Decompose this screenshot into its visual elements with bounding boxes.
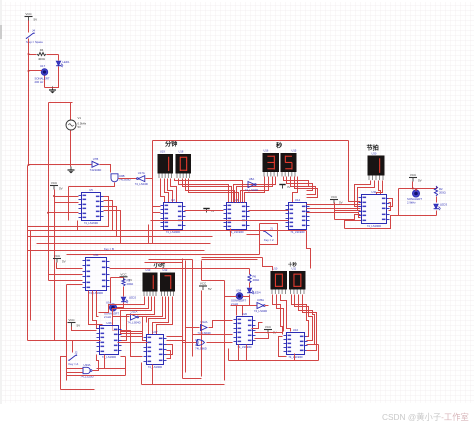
wire vert x224 <box>224 281 226 381</box>
wire right vert 4b <box>201 291 203 377</box>
wire to U31 <box>349 141 361 202</box>
wire <box>186 327 200 329</box>
IC U5 (divider) <box>79 188 104 225</box>
power VCC 5V <box>264 325 277 335</box>
wire <box>293 177 298 203</box>
svg-text:U20: U20 <box>242 312 248 316</box>
wire vert x54 full <box>54 190 56 341</box>
wire <box>243 296 250 298</box>
IC U26 (hour units) <box>97 321 122 359</box>
wire <box>104 355 106 369</box>
wire <box>273 295 283 335</box>
wire right vert 1 <box>182 259 184 379</box>
wire <box>183 179 232 203</box>
svg-text:74_LS04D: 74_LS04D <box>127 321 140 325</box>
IC U14 (second units counter) <box>286 198 310 234</box>
wire <box>183 342 197 344</box>
wire <box>249 283 251 288</box>
wire <box>121 336 143 338</box>
wire <box>49 102 73 104</box>
wire disp top 1 <box>202 257 263 259</box>
wire <box>104 207 117 237</box>
gate U7B (74LS04D) <box>90 157 102 172</box>
wire <box>291 177 316 195</box>
svg-text:VCC: VCC <box>331 195 338 199</box>
svg-text:200Ω: 200Ω <box>439 191 446 195</box>
buzzer/sonalert <box>231 293 246 306</box>
wire <box>189 179 239 203</box>
svg-text:U18: U18 <box>179 150 184 154</box>
clock source V1 <box>66 116 87 130</box>
wire <box>171 179 177 203</box>
svg-text:U30: U30 <box>372 152 377 156</box>
wire <box>44 76 46 88</box>
wire <box>72 327 97 331</box>
junction <box>412 188 414 190</box>
switch J4 <box>26 29 44 45</box>
wire <box>355 181 371 207</box>
wire <box>149 259 193 261</box>
gate U9B (74LS08D) <box>111 174 131 182</box>
svg-text:U10: U10 <box>106 301 112 305</box>
wire <box>146 178 153 180</box>
wire <box>148 225 150 244</box>
wire <box>121 356 126 358</box>
svg-text:VCC: VCC <box>54 254 61 258</box>
wire <box>377 181 383 195</box>
wire far-left vertical <box>27 166 29 341</box>
wire mid rail 1 <box>151 220 278 222</box>
ground <box>68 167 75 174</box>
svg-text:Key = 2: Key = 2 <box>264 238 274 242</box>
wire <box>433 187 437 189</box>
wire <box>57 263 83 269</box>
wire bottom rail 1b <box>97 368 126 370</box>
wire <box>118 297 152 335</box>
wire <box>255 332 283 334</box>
wire <box>55 202 79 204</box>
svg-text:U8A: U8A <box>249 177 255 181</box>
svg-text:CSDN @黄小子-工作室: CSDN @黄小子-工作室 <box>382 412 469 422</box>
wire <box>67 372 83 374</box>
wire <box>141 363 143 385</box>
wire <box>97 291 99 317</box>
svg-text:74_LS190D: 74_LS190D <box>237 345 251 349</box>
svg-text:400Ω: 400Ω <box>253 278 260 282</box>
wire <box>335 210 361 212</box>
svg-text:200 Hz: 200 Hz <box>35 80 44 84</box>
svg-text:VCC: VCC <box>25 12 32 16</box>
wire <box>281 295 291 332</box>
wire mid rail 2 <box>28 230 307 232</box>
wire <box>29 54 37 56</box>
svg-text:U7B: U7B <box>93 157 99 161</box>
svg-text:Key = A: Key = A <box>69 362 79 366</box>
svg-text:U17A: U17A <box>138 171 145 175</box>
wire <box>104 201 113 231</box>
svg-text:U16: U16 <box>264 149 269 153</box>
svg-text:74_LS190D: 74_LS190D <box>148 365 162 369</box>
wire <box>70 103 72 121</box>
wire mid rail 5 <box>28 250 205 252</box>
wire <box>265 305 269 307</box>
wire <box>49 280 83 282</box>
resistor R4 <box>37 48 46 61</box>
wire <box>111 277 124 279</box>
wire bottom mid rail <box>229 360 319 362</box>
wire <box>225 296 237 298</box>
wire vertical x48 <box>48 103 50 281</box>
wire <box>247 234 260 236</box>
svg-text:LED2: LED2 <box>129 296 136 300</box>
wire <box>412 182 414 189</box>
power VCC 5V <box>330 195 343 205</box>
IC U6 (minute tens counter) <box>224 198 250 234</box>
svg-text:U2: U2 <box>171 198 175 202</box>
svg-text:V1: V1 <box>78 116 82 120</box>
svg-text:74_LS163D: 74_LS163D <box>84 221 98 225</box>
wire <box>249 269 251 275</box>
svg-text:U11: U11 <box>292 267 297 271</box>
svg-text:U10: U10 <box>273 267 278 271</box>
svg-text:5V: 5V <box>339 201 343 205</box>
wire bottom rail 1 <box>67 375 126 377</box>
wire <box>165 179 169 203</box>
display U19 <box>158 154 174 178</box>
wire <box>228 349 230 361</box>
power VCC 5V <box>199 282 212 292</box>
wire disp top 2 <box>202 259 258 261</box>
wire <box>28 21 30 33</box>
wire <box>145 262 183 264</box>
wire <box>243 184 247 186</box>
display U16 <box>263 153 280 177</box>
wire right of U14 <box>334 203 336 220</box>
IC U2 (minute units counter) <box>161 198 186 234</box>
wire <box>119 178 137 180</box>
wire carry <box>185 220 224 222</box>
wire box bottom <box>399 215 437 217</box>
wire <box>307 344 319 346</box>
svg-text:J4: J4 <box>32 29 35 33</box>
IC U21 (hour tens) <box>83 253 110 295</box>
wire <box>245 177 265 203</box>
svg-text:J2: J2 <box>75 351 78 355</box>
wire <box>436 211 438 216</box>
wire <box>202 280 225 282</box>
svg-text:5V: 5V <box>62 260 66 264</box>
wire top rail <box>153 140 349 142</box>
wire <box>125 357 127 376</box>
wire <box>157 297 173 335</box>
wire <box>358 181 375 211</box>
wire <box>67 368 83 370</box>
power VCC 5V <box>68 318 81 328</box>
wire seconds to beat 1 <box>307 204 361 206</box>
wire <box>279 337 287 357</box>
wire <box>52 88 54 89</box>
wire mid rail 3 <box>28 236 213 238</box>
wire <box>307 231 311 269</box>
wire <box>299 295 315 345</box>
wire <box>49 212 79 214</box>
display U10d <box>271 271 288 294</box>
ground <box>203 209 214 214</box>
svg-text:2 kHz: 2 kHz <box>104 315 112 319</box>
wire <box>121 331 143 357</box>
wire LED top <box>58 55 60 61</box>
LED LED4 <box>247 288 254 294</box>
svg-text:Key = B: Key = B <box>104 247 114 251</box>
wire <box>193 334 233 336</box>
gate U8A (74_LS04D) <box>245 177 258 192</box>
svg-text:U16: U16 <box>293 328 299 332</box>
svg-text:74_LS190D: 74_LS190D <box>288 355 302 359</box>
wire <box>152 365 154 385</box>
IC U27 (hour cmp) <box>144 330 167 369</box>
wire rail 305 <box>231 305 257 307</box>
wire far-left vertical 2 <box>30 231 32 321</box>
wire <box>398 189 400 216</box>
svg-text:2.9kHz: 2.9kHz <box>407 200 416 204</box>
wire <box>236 306 238 316</box>
wire <box>292 295 309 337</box>
wire <box>70 131 72 167</box>
buzzer/sonalert <box>407 190 422 205</box>
wire <box>175 179 243 203</box>
svg-text:VCC: VCC <box>265 325 272 329</box>
wire <box>167 336 183 338</box>
wire right vert 2 <box>185 261 187 373</box>
svg-text:节拍: 节拍 <box>367 144 379 152</box>
wire return <box>345 216 399 229</box>
wire <box>67 284 83 286</box>
wire right vert 3 <box>192 260 194 357</box>
wire <box>55 196 79 198</box>
switch J1 <box>263 227 274 243</box>
wire <box>259 245 261 255</box>
junction <box>415 189 417 191</box>
power VCC 5V <box>50 181 63 191</box>
wire <box>263 258 273 271</box>
wire <box>255 334 269 339</box>
svg-text:U15: U15 <box>292 149 297 153</box>
wire <box>168 179 173 203</box>
svg-text:U17: U17 <box>40 64 46 68</box>
LED LED2 <box>121 297 128 303</box>
svg-text:5V: 5V <box>59 187 63 191</box>
wire buzzer left <box>29 70 42 72</box>
svg-text:74_LS04D: 74_LS04D <box>245 188 258 192</box>
wire <box>77 221 79 231</box>
display U15 <box>281 153 297 177</box>
junction <box>28 53 30 55</box>
wire <box>123 287 125 297</box>
svg-text:U19: U19 <box>160 150 165 154</box>
wire <box>110 278 112 304</box>
wire <box>104 211 121 244</box>
wire <box>234 177 276 203</box>
wire <box>246 345 248 361</box>
svg-text:VCC: VCC <box>120 272 127 276</box>
power VCC 5V <box>53 254 66 264</box>
wire bottom rail 3 <box>61 389 95 391</box>
IC U20 (ten-sec cnt) <box>234 312 256 349</box>
wire <box>167 340 186 342</box>
wire <box>303 295 317 351</box>
wire <box>249 210 289 212</box>
wire seconds to beat 3 <box>307 213 361 218</box>
wire <box>28 39 30 55</box>
power VCC 5V <box>409 173 422 183</box>
svg-text:U31: U31 <box>371 190 377 194</box>
wire <box>167 345 173 355</box>
wire <box>318 345 320 361</box>
resistor R3 <box>122 278 133 286</box>
wire <box>93 291 99 329</box>
wire long rail 268 <box>110 268 250 270</box>
wire <box>230 229 232 237</box>
svg-text:J1: J1 <box>270 227 273 231</box>
display U30 <box>368 156 385 181</box>
wire <box>121 331 143 333</box>
wire <box>242 306 244 316</box>
wire <box>121 297 155 341</box>
wire <box>99 297 145 313</box>
wire <box>113 312 130 317</box>
buzzer/sonalert <box>35 69 50 84</box>
wire <box>241 177 269 203</box>
wire seconds to beat 2 <box>307 208 361 210</box>
svg-text:LED3: LED3 <box>440 203 447 207</box>
IC U31 (beat counter) <box>359 190 390 228</box>
wire <box>149 297 166 335</box>
wire <box>49 274 83 276</box>
gate U35A (74_LS04D) <box>254 298 267 313</box>
wire <box>68 187 70 221</box>
svg-text:分钟: 分钟 <box>165 140 177 148</box>
wire <box>252 323 263 329</box>
wire <box>69 183 115 187</box>
gate U17A (74_LS04D) <box>135 171 148 186</box>
wire <box>436 197 438 203</box>
wire vert x66 upper <box>66 285 68 341</box>
wire <box>29 164 92 166</box>
svg-text:LED1: LED1 <box>63 60 70 64</box>
wire <box>100 165 111 173</box>
power VCC 5V <box>120 272 133 282</box>
wire <box>207 342 233 344</box>
ground <box>279 185 290 190</box>
display U11d <box>289 271 306 294</box>
ground <box>49 87 56 94</box>
wire <box>28 197 109 227</box>
wire mid rail 6 <box>67 254 260 256</box>
wire <box>287 177 313 191</box>
wire <box>209 321 233 328</box>
wire <box>143 297 163 341</box>
IC U16 (ten-sec cnt2) <box>284 328 308 359</box>
wire bottom rail 2 <box>142 384 225 386</box>
svg-text:5V: 5V <box>208 287 212 291</box>
wire <box>153 297 169 335</box>
svg-text:秒: 秒 <box>276 142 283 150</box>
wire <box>183 378 202 380</box>
LED LED1 <box>56 61 63 67</box>
display U13 <box>143 273 158 297</box>
gate U11A (74_LS04D) <box>127 310 140 325</box>
junction <box>53 195 55 197</box>
LED LED3 <box>434 204 441 210</box>
wire <box>93 355 99 371</box>
svg-text:U14: U14 <box>295 198 301 202</box>
gate U33A (74_LS20D) <box>80 363 93 378</box>
gate U12A (74_LS04D) <box>197 320 210 335</box>
wire <box>161 179 165 203</box>
wire <box>335 215 361 220</box>
svg-text:U12A: U12A <box>201 320 208 324</box>
svg-text:5V: 5V <box>34 18 38 22</box>
display U12 <box>160 273 175 297</box>
wire <box>277 295 284 332</box>
wire <box>117 303 124 308</box>
wire <box>139 317 147 323</box>
svg-text:VCC: VCC <box>410 173 417 177</box>
wire right vert 4a <box>201 261 203 281</box>
wire <box>118 342 148 344</box>
svg-text:U35A: U35A <box>257 298 264 302</box>
wire <box>294 354 296 361</box>
wire mid rail 4 <box>37 243 211 245</box>
svg-text:VCC: VCC <box>68 318 75 322</box>
wire <box>389 199 393 207</box>
svg-text:74LS86D: 74LS86D <box>195 346 207 350</box>
wire <box>186 179 235 203</box>
wire <box>295 295 313 341</box>
wire switch box <box>260 224 278 245</box>
wire <box>284 177 309 187</box>
wire <box>72 341 74 353</box>
svg-text:74_LS190D: 74_LS190D <box>367 224 381 228</box>
svg-text:U34: U34 <box>236 289 242 293</box>
wire main left vertical <box>28 55 30 165</box>
wire <box>47 54 59 56</box>
svg-text:74LS04D: 74LS04D <box>90 168 102 172</box>
wire rail341 ext <box>28 340 101 342</box>
wire <box>237 177 273 203</box>
junction <box>47 212 49 214</box>
switch J2 <box>68 351 78 367</box>
wire <box>179 179 229 203</box>
wire <box>185 210 224 212</box>
wire <box>167 351 171 359</box>
window edge <box>0 0 2 404</box>
wire <box>249 220 289 222</box>
resistor R2 <box>434 186 445 196</box>
wire <box>379 181 381 195</box>
svg-text:R4: R4 <box>40 48 44 52</box>
wire <box>28 340 67 342</box>
display U18 <box>176 154 192 178</box>
wire <box>153 206 161 208</box>
svg-text:0V: 0V <box>287 185 291 189</box>
wire <box>238 345 240 361</box>
wire <box>113 297 149 331</box>
wire <box>249 295 251 306</box>
svg-text:74_LS04D: 74_LS04D <box>254 309 267 313</box>
wire box right <box>45 67 59 88</box>
wire <box>61 357 67 390</box>
